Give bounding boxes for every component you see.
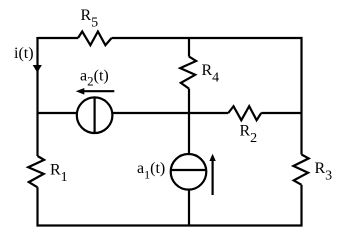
wire: right side upper segment — [300, 37, 302, 155]
current source a2: internal bar — [93, 98, 95, 133]
current source a2: direction arrow shaft — [83, 90, 115, 92]
wire: bottom side — [37, 224, 303, 226]
svg-text:R2: R2 — [240, 123, 258, 147]
wire: middle row, R2 to right side — [261, 112, 301, 114]
current source a1: direction arrow shaft — [212, 160, 214, 196]
resistor R1 — [28, 156, 44, 187]
wire: top side, top-left corner to R5 — [38, 37, 79, 38]
svg-text:i(t): i(t) — [14, 45, 34, 62]
current source a1: internal bar — [171, 169, 206, 171]
current arrow i(t): arrowhead on left wire — [33, 65, 42, 73]
wire: middle row, a2 to R2 — [112, 112, 228, 114]
svg-text:R1: R1 — [50, 162, 68, 186]
wire: middle branch, R4 through junction to a1 — [188, 89, 190, 155]
svg-text:R5: R5 — [81, 7, 99, 31]
svg-text:a2(t): a2(t) — [80, 68, 109, 89]
svg-text:R4: R4 — [202, 62, 220, 86]
svg-text:R3: R3 — [315, 160, 333, 184]
svg-text:a1(t): a1(t) — [137, 160, 165, 182]
wire: middle branch, a1 to bottom side — [188, 190, 190, 227]
current source a1: circle — [171, 154, 207, 190]
wire: left side lower segment — [36, 187, 38, 226]
resistor R3 — [293, 155, 308, 185]
current source a2: direction arrow head — [76, 88, 85, 95]
resistor R2 — [228, 106, 261, 120]
resistor R4 — [180, 57, 196, 89]
wire: left side upper segment — [36, 37, 38, 156]
wire: top side, R5 to top-right corner — [112, 37, 303, 39]
current source a2: circle — [77, 97, 113, 133]
current source a1: direction arrow head — [209, 154, 215, 161]
resistor R5 — [78, 32, 112, 46]
wire: middle branch, top side to R4 — [188, 38, 190, 57]
wire: right side lower segment — [300, 185, 302, 227]
wire: middle row, left side to a2 — [38, 112, 78, 114]
